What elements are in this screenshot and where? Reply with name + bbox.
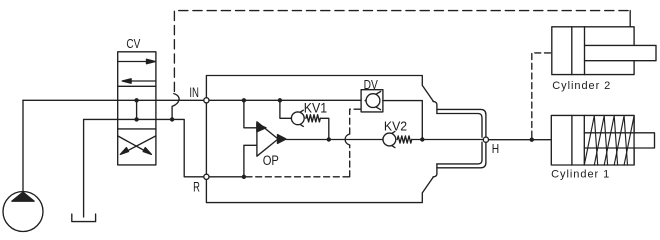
valve CV arrow left xyxy=(122,79,156,83)
check valve KV2 xyxy=(382,131,483,147)
wire R node to OP branch xyxy=(209,176,244,178)
svg-text:H: H xyxy=(492,142,499,156)
wire tank to CV xyxy=(84,118,172,120)
wire DV output down to KV2 line xyxy=(383,101,422,140)
dashed pilot line to cylinder2 xyxy=(532,53,552,137)
wire tank riser xyxy=(83,119,85,217)
junction dot KV1/OP output xyxy=(327,137,331,141)
wire OP output xyxy=(286,139,382,141)
wire frame drop to cylinder2 xyxy=(629,11,631,27)
valve CV arrow right xyxy=(118,59,156,63)
manifold duct inner bottom xyxy=(437,142,482,164)
port node R xyxy=(204,174,209,179)
junction dot IN/KV1 branch xyxy=(278,98,282,102)
svg-text:IN: IN xyxy=(189,85,199,100)
manifold duct outer top xyxy=(437,109,486,136)
dashed pilot line R to DV xyxy=(246,176,350,178)
junction dot IN/OP branch xyxy=(242,98,246,102)
wire IN to DV xyxy=(206,99,361,101)
svg-text:Cylinder 1: Cylinder 1 xyxy=(551,169,609,181)
svg-text:OP: OP xyxy=(263,153,279,168)
check valve DV xyxy=(361,90,383,112)
manifold step top xyxy=(433,101,437,113)
cylinder 2 piston xyxy=(572,27,585,75)
wire CV lower to R xyxy=(172,119,203,176)
wire H to cylinder1 xyxy=(489,139,552,141)
svg-text:DV: DV xyxy=(364,77,378,92)
wire OP lower input xyxy=(244,145,257,177)
check valve KV1 xyxy=(280,100,329,139)
pilot line hop over IN wire xyxy=(172,94,179,120)
manifold step bottom xyxy=(433,164,437,177)
pump P xyxy=(3,192,43,232)
tank xyxy=(72,214,96,222)
wire pump to CV to IN xyxy=(23,99,206,101)
port node IN xyxy=(204,98,209,103)
valve CV crossed arrows xyxy=(118,136,156,155)
manifold duct outer bottom xyxy=(437,143,486,168)
port node H xyxy=(483,137,488,142)
op-amp OP xyxy=(257,122,286,156)
pilot hop over OP wire xyxy=(345,134,350,145)
dashed pilot frame top xyxy=(174,11,630,92)
junction dot cylinder2 branch xyxy=(530,138,534,142)
valve CV body xyxy=(118,52,156,165)
svg-text:KV2: KV2 xyxy=(384,118,407,133)
cylinder 1 body xyxy=(551,115,634,165)
svg-text:Cylinder 2: Cylinder 2 xyxy=(552,80,610,92)
cylinder 2 rod xyxy=(585,45,657,60)
svg-text:CV: CV xyxy=(126,37,140,51)
junction dot below hop xyxy=(170,117,174,121)
manifold block outline xyxy=(206,76,433,203)
valve CV centre connector xyxy=(134,98,138,122)
wire OP upper input xyxy=(244,100,257,128)
cylinder 1 piston xyxy=(572,115,584,165)
svg-text:R: R xyxy=(193,179,200,195)
svg-text:KV1: KV1 xyxy=(304,100,327,115)
cylinder 1 spring xyxy=(584,116,634,165)
cylinder 2 body xyxy=(552,27,634,75)
manifold duct inner top xyxy=(437,114,482,138)
cylinder 1 rod xyxy=(584,133,654,148)
junction dot R line xyxy=(242,175,246,179)
junction dot DV/KV2 line xyxy=(420,137,424,141)
wire pump riser xyxy=(22,100,24,191)
